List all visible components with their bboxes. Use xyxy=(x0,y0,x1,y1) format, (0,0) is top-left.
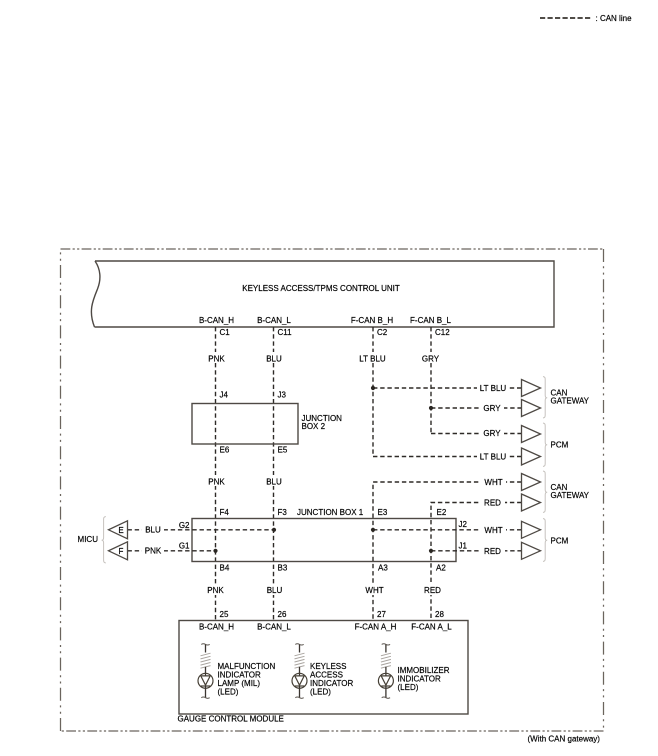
right side label patches xyxy=(477,382,508,556)
pin 28 xyxy=(435,610,444,619)
connector triangle LT BLU PCM xyxy=(522,448,541,465)
svg-text:B-CAN_L: B-CAN_L xyxy=(257,316,291,325)
bracket CAN GATEWAY lower xyxy=(543,471,547,513)
color label BLU MICU xyxy=(145,526,161,535)
svg-text:WHT: WHT xyxy=(484,478,502,487)
svg-text:C1: C1 xyxy=(220,328,231,337)
pin A3 xyxy=(378,564,388,573)
svg-text:E2: E2 xyxy=(437,508,447,517)
pin J4 xyxy=(220,391,229,400)
control unit terminal name F-CAN B_H xyxy=(351,316,393,325)
pin E5 xyxy=(278,446,288,455)
svg-text:RED: RED xyxy=(424,586,441,595)
immobilizer indicator LED xyxy=(378,644,393,699)
svg-text:B-CAN_H: B-CAN_H xyxy=(199,623,234,632)
pin 26 xyxy=(278,610,287,619)
wire color patch row 1 xyxy=(203,352,444,363)
pin J2 xyxy=(459,520,468,529)
pin J3 xyxy=(278,391,287,400)
svg-text:F-CAN B_H: F-CAN B_H xyxy=(351,316,393,325)
pin C2 xyxy=(377,328,388,337)
color label LT BLU xyxy=(359,355,386,364)
svg-text:(LED): (LED) xyxy=(310,688,331,697)
svg-text:F4: F4 xyxy=(220,508,230,517)
svg-text:28: 28 xyxy=(435,610,444,619)
svg-text:C2: C2 xyxy=(377,328,388,337)
svg-text:F: F xyxy=(119,547,124,556)
svg-text:J1: J1 xyxy=(459,542,468,551)
color label BLU xyxy=(266,355,282,364)
svg-text:LT BLU: LT BLU xyxy=(480,384,507,393)
pin G1 xyxy=(179,542,190,551)
wire WHT bus E3 to J2 to PCM xyxy=(373,529,522,531)
svg-text:J3: J3 xyxy=(278,391,287,400)
MICU connector triangle F xyxy=(109,542,128,560)
svg-text:A3: A3 xyxy=(378,564,388,573)
svg-text:: CAN line: : CAN line xyxy=(596,14,633,23)
pin F4 xyxy=(220,508,230,517)
connector triangle GRY CAN GATEWAY xyxy=(522,400,541,417)
wire LT BLU horizontal to CAN GATEWAY xyxy=(373,387,522,389)
pin C11 xyxy=(278,328,293,337)
svg-text:GRY: GRY xyxy=(483,404,501,413)
pin G2 xyxy=(179,521,190,530)
svg-text:25: 25 xyxy=(220,610,229,619)
pin A2 xyxy=(436,564,446,573)
gauge terminal name F-CAN A_H xyxy=(355,623,397,632)
color label GRY xyxy=(422,355,440,364)
wire PNK from MICU F to G1 and bus to B4 xyxy=(128,550,216,552)
color label WHT row3 xyxy=(365,586,383,595)
label CAN GATEWAY upper xyxy=(551,389,590,406)
wire B-CAN_L BLU vertical C11 to gauge pin 26 xyxy=(273,327,275,621)
pin B4 xyxy=(220,564,230,573)
wire B-CAN_H PNK vertical C1 to gauge pin 25 xyxy=(215,327,217,621)
junction dot F-CAN B_L xyxy=(429,406,433,410)
wire GRY horizontal to PCM xyxy=(431,433,522,435)
svg-text:J2: J2 xyxy=(459,520,468,529)
svg-text:GAUGE CONTROL MODULE: GAUGE CONTROL MODULE xyxy=(178,715,284,724)
MICU bracket xyxy=(102,517,106,564)
wire LT BLU horizontal to PCM xyxy=(373,456,522,458)
label PCM lower xyxy=(551,537,569,546)
bracket CAN GATEWAY upper xyxy=(543,377,547,419)
gauge terminal name B-CAN_L xyxy=(257,623,291,632)
wire GRY horizontal to CAN GATEWAY xyxy=(431,407,522,409)
svg-text:26: 26 xyxy=(278,610,287,619)
label RED to CAN GATEWAY xyxy=(484,499,501,508)
svg-text:LT BLU: LT BLU xyxy=(480,453,507,462)
junction dot F-CAN B_H xyxy=(371,386,375,390)
svg-text:F-CAN B_L: F-CAN B_L xyxy=(410,316,451,325)
pin E3 xyxy=(378,508,388,517)
wire RED bus A2 to J1 to PCM xyxy=(431,550,522,552)
junction dot E3 F-CAN A_H xyxy=(371,528,375,532)
svg-text:E6: E6 xyxy=(220,446,230,455)
svg-text:F-CAN A_H: F-CAN A_H xyxy=(355,623,397,632)
pin 27 xyxy=(377,610,386,619)
connector triangle RED PCM xyxy=(522,542,541,559)
svg-text:GATEWAY: GATEWAY xyxy=(551,491,590,500)
svg-text:BLU: BLU xyxy=(266,478,282,487)
svg-text:27: 27 xyxy=(377,610,386,619)
label PCM upper xyxy=(551,441,569,450)
color label RED row3 xyxy=(424,586,441,595)
svg-text:BLU: BLU xyxy=(145,526,161,535)
svg-text:G2: G2 xyxy=(179,521,190,530)
svg-text:B-CAN_L: B-CAN_L xyxy=(257,623,291,632)
svg-text:WHT: WHT xyxy=(365,586,383,595)
svg-text:E3: E3 xyxy=(378,508,388,517)
junction dot B4 B-CAN_H xyxy=(213,549,217,553)
gauge control module box xyxy=(178,621,469,724)
wire F-CAN A_L RED corner to CAN GATEWAY and down through E2 xyxy=(431,503,522,621)
svg-text:G1: G1 xyxy=(179,542,190,551)
svg-text:RED: RED xyxy=(484,547,501,556)
svg-text:BLU: BLU xyxy=(266,355,282,364)
label LT BLU to PCM xyxy=(480,453,507,462)
wire BLU from MICU E to G2 and bus to F3 xyxy=(128,529,275,531)
control unit terminal name B-CAN_L xyxy=(257,316,291,325)
svg-text:GATEWAY: GATEWAY xyxy=(551,397,590,406)
control unit terminal name B-CAN_H xyxy=(199,316,234,325)
wire F-CAN A_H WHT corner to CAN GATEWAY and down through E3 xyxy=(373,482,522,621)
label GRY to PCM xyxy=(483,429,501,438)
junction box 2 xyxy=(192,404,342,445)
svg-text:J4: J4 xyxy=(220,391,229,400)
keyless access indicator LED xyxy=(292,644,307,699)
pin J1 xyxy=(459,542,468,551)
color label PNK xyxy=(208,355,225,364)
color label BLU row3 xyxy=(267,586,283,595)
pin E2 xyxy=(437,508,447,517)
label RED to PCM xyxy=(484,547,501,556)
gauge terminal name B-CAN_H xyxy=(199,623,234,632)
svg-text:MICU: MICU xyxy=(78,535,99,544)
junction dot A2 F-CAN A_L xyxy=(429,549,433,553)
wire color patch row 3 xyxy=(203,584,445,595)
label CAN GATEWAY lower xyxy=(551,483,590,500)
gauge terminal name F-CAN A_L xyxy=(411,623,452,632)
malfunction indicator lamp MIL LED xyxy=(198,644,213,699)
outer dash-dot border (With CAN gateway) xyxy=(61,249,604,731)
color label PNK MICU xyxy=(145,547,162,556)
svg-text:BOX 2: BOX 2 xyxy=(302,422,326,431)
svg-text:PCM: PCM xyxy=(551,441,569,450)
bracket PCM upper xyxy=(543,423,547,467)
caption (With CAN gateway) xyxy=(528,735,601,744)
label LT BLU to CAN GATEWAY xyxy=(480,384,507,393)
connector triangle GRY PCM xyxy=(522,426,541,443)
svg-text:WHT: WHT xyxy=(484,526,502,535)
svg-text:B-CAN_H: B-CAN_H xyxy=(199,316,234,325)
svg-text:(LED): (LED) xyxy=(398,683,419,692)
svg-text:F3: F3 xyxy=(278,508,288,517)
svg-text:B4: B4 xyxy=(220,564,230,573)
svg-text:PNK: PNK xyxy=(208,355,225,364)
pin F3 xyxy=(278,508,288,517)
pin 25 xyxy=(220,610,229,619)
connector triangle LT BLU CAN GATEWAY xyxy=(522,380,541,397)
junction dot F3 B-CAN_L xyxy=(272,528,276,532)
svg-text:PNK: PNK xyxy=(207,586,224,595)
label KEYLESS ACCESS INDICATOR (LED) xyxy=(310,662,353,697)
svg-text:JUNCTION BOX 1: JUNCTION BOX 1 xyxy=(297,508,364,517)
pin B3 xyxy=(278,564,288,573)
pin E6 xyxy=(220,446,230,455)
pin C1 xyxy=(220,328,231,337)
svg-text:PNK: PNK xyxy=(145,547,162,556)
label WHT to PCM xyxy=(484,526,502,535)
svg-text:PNK: PNK xyxy=(208,478,225,487)
label MALFUNCTION INDICATOR LAMP (MIL) (LED) xyxy=(218,662,276,697)
color label PNK row2 xyxy=(208,478,225,487)
junction box 1 xyxy=(192,508,456,562)
MICU label xyxy=(78,535,99,544)
svg-text:(LED): (LED) xyxy=(218,688,239,697)
svg-text:BLU: BLU xyxy=(267,586,283,595)
legend label : CAN line xyxy=(596,14,633,23)
connector triangle WHT CAN GATEWAY xyxy=(522,474,541,491)
svg-text:F-CAN A_L: F-CAN A_L xyxy=(411,623,452,632)
svg-text:C11: C11 xyxy=(278,328,293,337)
MICU connector triangle E xyxy=(109,521,128,539)
bracket PCM lower xyxy=(543,519,547,562)
svg-text:(With CAN gateway): (With CAN gateway) xyxy=(528,735,601,744)
svg-text:RED: RED xyxy=(484,499,501,508)
control unit KEYLESS ACCESS/TPMS CONTROL UNIT box xyxy=(91,261,554,327)
svg-text:KEYLESS ACCESS/TPMS CONTROL UN: KEYLESS ACCESS/TPMS CONTROL UNIT xyxy=(242,284,400,293)
svg-text:E: E xyxy=(118,526,123,535)
color label BLU row2 xyxy=(266,478,282,487)
control unit terminal name F-CAN B_L xyxy=(410,316,451,325)
label GRY to CAN GATEWAY xyxy=(483,404,501,413)
svg-text:E5: E5 xyxy=(278,446,288,455)
connector triangle WHT PCM xyxy=(522,521,541,538)
pin C12 xyxy=(435,328,450,337)
svg-text:GRY: GRY xyxy=(483,429,501,438)
color patch MICU row xyxy=(142,524,164,556)
svg-text:GRY: GRY xyxy=(422,355,440,364)
wire color patch row 2 xyxy=(203,475,287,486)
legend CAN line dashes xyxy=(540,17,593,19)
color label PNK row3 xyxy=(207,586,224,595)
wire F-CAN B_L GRY vertical C12 down to PCM branch corner xyxy=(430,327,432,434)
svg-text:A2: A2 xyxy=(436,564,446,573)
svg-text:LT BLU: LT BLU xyxy=(359,355,386,364)
svg-text:C12: C12 xyxy=(435,328,450,337)
svg-text:B3: B3 xyxy=(278,564,288,573)
wire F-CAN B_H LT BLU vertical C2 down to PCM branch corner xyxy=(372,327,374,457)
label IMMOBILIZER INDICATOR (LED) xyxy=(398,666,450,692)
svg-text:PCM: PCM xyxy=(551,537,569,546)
label WHT to CAN GATEWAY xyxy=(484,478,502,487)
connector triangle RED CAN GATEWAY xyxy=(522,494,541,511)
